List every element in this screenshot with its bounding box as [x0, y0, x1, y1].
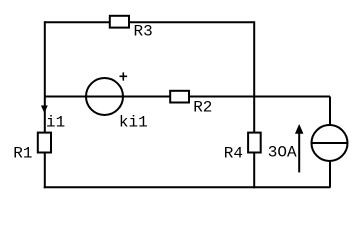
svg-text:3OA: 3OA: [268, 144, 297, 162]
current source I1 30A circle: [312, 125, 348, 161]
dependent source U1 ki1 circle: [86, 78, 123, 115]
resistor R1: [38, 133, 51, 153]
wire left vertical: [44, 21, 46, 188]
wire top horizontal: [45, 21, 254, 23]
svg-text:R4: R4: [224, 144, 243, 162]
wire 30A source drop: [329, 97, 331, 188]
wire right vertical: [253, 21, 255, 188]
resistor R2: [170, 91, 189, 103]
wire middle horizontal: [45, 96, 330, 98]
current source chord: [312, 142, 348, 144]
30A arrowhead: [295, 125, 303, 134]
plus sign of ki1: [120, 72, 128, 80]
30A arrow: [298, 133, 300, 172]
svg-text:R3: R3: [134, 23, 153, 41]
svg-text:R2: R2: [193, 99, 212, 117]
svg-text:i1: i1: [46, 113, 65, 131]
svg-text:R1: R1: [13, 144, 32, 162]
resistor R3: [110, 16, 129, 28]
svg-text:ki1: ki1: [119, 114, 148, 132]
current arrow i1: [41, 106, 47, 113]
wire bottom horizontal: [44, 186, 331, 188]
resistor R4: [248, 133, 261, 153]
